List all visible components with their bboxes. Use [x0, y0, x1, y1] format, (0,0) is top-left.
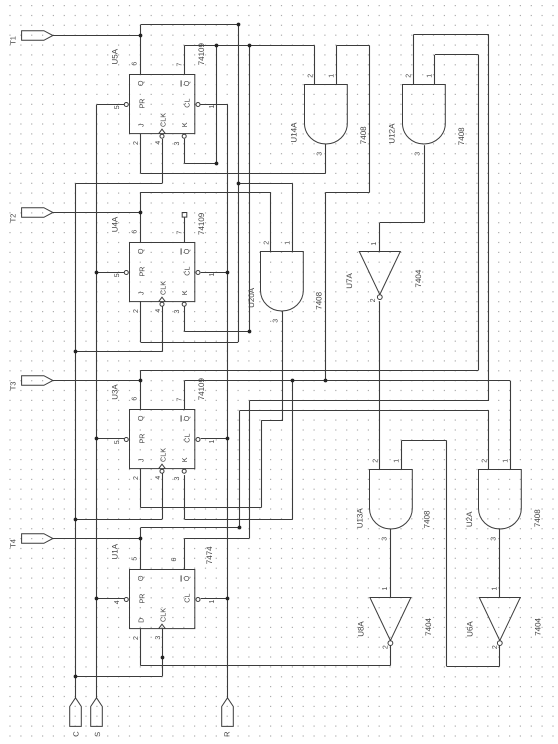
svg-text:Q: Q: [136, 80, 145, 86]
svg-text:3: 3: [155, 636, 162, 640]
svg-text:3: 3: [174, 142, 181, 146]
svg-text:2: 2: [133, 636, 140, 640]
svg-text:U6A: U6A: [466, 621, 475, 637]
svg-text:2: 2: [481, 459, 488, 463]
svg-text:2: 2: [133, 309, 140, 313]
svg-text:CL: CL: [182, 593, 191, 602]
svg-text:U4A: U4A: [111, 216, 120, 232]
svg-text:2: 2: [372, 459, 379, 463]
svg-text:D: D: [136, 618, 145, 623]
svg-text:Q: Q: [182, 575, 191, 581]
svg-text:1: 1: [329, 74, 336, 78]
svg-text:T2: T2: [9, 214, 18, 223]
svg-text:U20A: U20A: [247, 287, 256, 308]
svg-text:Q: Q: [136, 415, 145, 421]
svg-text:6: 6: [171, 557, 178, 561]
svg-text:U5A: U5A: [111, 48, 120, 64]
svg-text:6: 6: [131, 230, 138, 234]
svg-text:3: 3: [382, 537, 389, 541]
svg-text:Q: Q: [182, 248, 191, 254]
svg-text:CL: CL: [182, 433, 191, 442]
svg-text:2: 2: [263, 241, 270, 245]
svg-text:3: 3: [317, 152, 324, 156]
svg-text:U14A: U14A: [290, 122, 299, 143]
svg-text:4: 4: [155, 309, 162, 313]
svg-text:3: 3: [273, 319, 280, 323]
svg-text:Q: Q: [136, 248, 145, 254]
svg-text:T1: T1: [9, 36, 18, 45]
svg-text:K: K: [180, 290, 189, 295]
svg-text:U8A: U8A: [356, 621, 365, 637]
svg-text:K: K: [180, 122, 189, 127]
svg-text:CL: CL: [182, 98, 191, 107]
svg-text:PR: PR: [137, 594, 146, 604]
svg-text:2: 2: [492, 645, 499, 649]
svg-text:7: 7: [177, 397, 184, 401]
svg-text:2: 2: [307, 74, 314, 78]
svg-text:1: 1: [503, 459, 510, 463]
svg-text:7: 7: [177, 62, 184, 66]
svg-text:U13A: U13A: [355, 508, 364, 529]
svg-text:CLK: CLK: [159, 281, 168, 295]
svg-text:1: 1: [285, 241, 292, 245]
svg-text:R: R: [223, 731, 232, 737]
svg-text:K: K: [180, 457, 189, 462]
svg-text:3: 3: [415, 152, 422, 156]
svg-text:PR: PR: [137, 267, 146, 277]
svg-text:6: 6: [131, 62, 138, 66]
svg-text:T3: T3: [9, 382, 18, 391]
svg-text:U1A: U1A: [111, 543, 120, 559]
svg-text:7408: 7408: [533, 509, 542, 527]
svg-text:7408: 7408: [315, 291, 324, 309]
svg-text:5: 5: [114, 105, 121, 109]
svg-text:Q: Q: [136, 575, 145, 581]
svg-text:2: 2: [133, 476, 140, 480]
svg-text:7404: 7404: [424, 617, 433, 635]
svg-text:5: 5: [131, 557, 138, 561]
svg-text:7404: 7404: [534, 617, 543, 635]
svg-text:74109: 74109: [197, 43, 206, 66]
svg-text:U2A: U2A: [465, 511, 474, 527]
svg-text:U12A: U12A: [388, 123, 397, 144]
svg-text:1: 1: [209, 272, 216, 276]
svg-text:7404: 7404: [414, 269, 423, 287]
svg-text:CLK: CLK: [159, 608, 168, 622]
svg-text:1: 1: [209, 599, 216, 603]
svg-text:U3A: U3A: [111, 384, 120, 400]
svg-text:7: 7: [177, 230, 184, 234]
svg-text:3: 3: [174, 310, 181, 314]
svg-text:1: 1: [427, 74, 434, 78]
svg-text:4: 4: [155, 476, 162, 480]
svg-text:PR: PR: [137, 434, 146, 444]
svg-text:C: C: [72, 731, 81, 737]
svg-text:74109: 74109: [197, 212, 206, 235]
svg-text:S: S: [93, 732, 102, 737]
svg-text:74109: 74109: [197, 378, 206, 401]
svg-text:PR: PR: [137, 99, 146, 109]
svg-text:Q: Q: [182, 80, 191, 86]
svg-text:Q: Q: [182, 415, 191, 421]
svg-text:5: 5: [114, 273, 121, 277]
svg-text:2: 2: [370, 298, 377, 302]
svg-text:7408: 7408: [423, 510, 432, 528]
svg-text:J: J: [136, 458, 145, 462]
svg-text:5: 5: [114, 440, 121, 444]
svg-text:J: J: [136, 123, 145, 127]
svg-text:6: 6: [131, 397, 138, 401]
svg-text:7408: 7408: [457, 127, 466, 145]
svg-text:4: 4: [155, 141, 162, 145]
svg-text:4: 4: [114, 600, 121, 604]
svg-text:1: 1: [492, 586, 499, 590]
svg-text:1: 1: [209, 439, 216, 443]
svg-text:2: 2: [133, 141, 140, 145]
svg-text:2: 2: [383, 645, 390, 649]
svg-text:1: 1: [209, 104, 216, 108]
svg-text:7474: 7474: [205, 546, 214, 564]
svg-text:7408: 7408: [359, 126, 368, 144]
svg-text:CLK: CLK: [159, 113, 168, 127]
svg-text:U7A: U7A: [345, 272, 354, 288]
svg-text:3: 3: [174, 477, 181, 481]
svg-text:1: 1: [394, 459, 401, 463]
svg-text:J: J: [136, 291, 145, 295]
svg-text:1: 1: [371, 242, 378, 246]
svg-text:T4: T4: [9, 539, 18, 548]
svg-text:CL: CL: [182, 266, 191, 275]
svg-text:1: 1: [382, 586, 389, 590]
svg-text:CLK: CLK: [159, 448, 168, 462]
svg-text:3: 3: [491, 537, 498, 541]
svg-text:2: 2: [405, 74, 412, 78]
